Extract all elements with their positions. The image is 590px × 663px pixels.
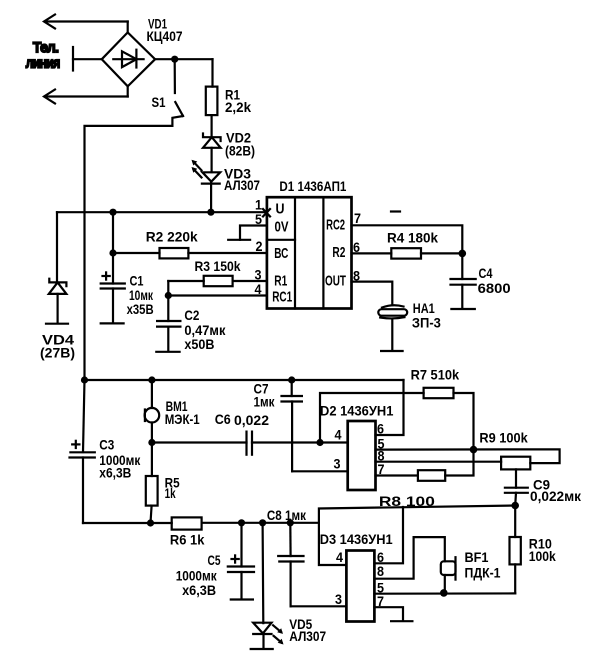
wire: D1 pin 7 to C4 junction	[352, 225, 463, 253]
node: junction BM1/C6/R5	[148, 439, 155, 446]
svg-text:С5: С5	[208, 552, 221, 568]
node: X mark at pin 1	[263, 209, 270, 217]
node: junction C8 / bottom rail	[287, 519, 294, 526]
node: junction VD5 / bottom rail	[259, 519, 266, 526]
wire: D1 pin 8 to HA1	[352, 282, 393, 304]
node: junction C5 / bottom rail	[238, 519, 245, 526]
ground	[46, 323, 68, 325]
buzzer HA1	[378, 300, 441, 351]
svg-text:RC2: RC2	[326, 217, 345, 234]
svg-text:(27В): (27В)	[40, 345, 75, 361]
svg-text:8: 8	[377, 563, 384, 579]
svg-text:R3 150k: R3 150k	[195, 258, 241, 274]
capacitor C1	[101, 212, 154, 323]
svg-text:7: 7	[354, 210, 361, 226]
svg-text:0,022: 0,022	[234, 412, 269, 428]
svg-text:АЛ307: АЛ307	[289, 628, 326, 644]
wire: VD2 to VD3	[211, 148, 213, 172]
node: junction R7/R8/pin5	[470, 446, 478, 454]
resistor R3	[168, 258, 267, 296]
resistor R5	[146, 443, 180, 524]
svg-text:ВС: ВС	[274, 245, 288, 262]
svg-text:2: 2	[256, 238, 263, 254]
ground: D3 pin 7	[374, 607, 412, 621]
microphone BM1	[145, 380, 200, 443]
svg-text:КЦ407: КЦ407	[147, 28, 183, 44]
ground	[251, 648, 273, 650]
svg-text:R7 510k: R7 510k	[411, 367, 460, 383]
svg-text:BF1: BF1	[465, 549, 489, 565]
svg-text:х50В: х50В	[184, 336, 214, 352]
resistor R1	[206, 87, 251, 116]
node: junction R4/C4/pin7	[459, 250, 467, 258]
capacitor C6	[152, 411, 320, 455]
svg-text:OUT: OUT	[325, 273, 346, 290]
svg-text:0,022мк: 0,022мк	[530, 488, 582, 504]
svg-text:С4: С4	[479, 265, 493, 281]
op-amp U1: IC D1 1436АП1	[255, 178, 362, 309]
wire: D1 pin 5 ground stub	[228, 226, 267, 240]
svg-text:S1: S1	[152, 94, 166, 110]
node: junction C9/R10/frame	[511, 502, 519, 510]
svg-text:4: 4	[336, 549, 343, 565]
node: line terminal bar	[73, 47, 102, 71]
svg-text:ПДК-1: ПДК-1	[465, 565, 501, 581]
svg-text:МЭК-1: МЭК-1	[165, 411, 200, 427]
wire: junction to D2 pin 4	[320, 441, 348, 443]
bridge rectifier VD1	[102, 16, 183, 87]
svg-text:3: 3	[334, 456, 341, 472]
zener diode VD4	[40, 212, 75, 360]
LED VD5	[251, 523, 327, 649]
capacitor C2	[156, 296, 226, 353]
resistor R10	[510, 506, 556, 594]
wire: D3 frame to R10 junction	[319, 506, 515, 566]
svg-text:D1 1436АП1: D1 1436АП1	[279, 178, 346, 194]
svg-text:6800: 6800	[478, 280, 511, 296]
wire: bridge output to R1	[155, 59, 212, 86]
wire: D3 pin 5 line	[374, 592, 515, 594]
wire: top line arrow	[44, 15, 128, 34]
svg-text:0V: 0V	[275, 219, 289, 236]
wire: D2 pin 5 line	[376, 449, 560, 463]
wire: bottom rail left	[83, 522, 172, 524]
capacitor C3	[70, 380, 142, 523]
op-amp U3: IC D3 1436УН1	[320, 531, 393, 622]
resistor R9	[376, 430, 531, 470]
resistor R8	[376, 450, 474, 509]
ground	[231, 598, 253, 600]
ground	[451, 308, 474, 310]
svg-text:D2 1436УН1: D2 1436УН1	[320, 403, 394, 419]
node: junction C1 branch	[109, 209, 116, 216]
svg-text:ЗП-3: ЗП-3	[412, 315, 441, 331]
node: junction left bus / mid rail	[81, 376, 88, 383]
op-amp U2: IC D2 1436УН1	[320, 403, 394, 491]
svg-text:(82В): (82В)	[225, 143, 255, 159]
svg-text:R1: R1	[274, 273, 287, 290]
capacitor C5	[176, 523, 254, 600]
svg-text:АЛ307: АЛ307	[224, 177, 260, 193]
svg-text:х6,3В: х6,3В	[182, 582, 216, 598]
svg-text:R2: R2	[332, 244, 345, 261]
svg-text:3: 3	[335, 591, 342, 607]
node: junction VD3/top rail	[207, 209, 214, 216]
wire: D3 pin 6 riser	[374, 507, 403, 563]
resistor R7	[320, 367, 474, 450]
node: junction BF1 / pin5 line	[440, 589, 448, 597]
svg-text:Тел.: Тел.	[33, 39, 59, 55]
noise dash	[391, 210, 400, 212]
svg-text:1k: 1k	[165, 485, 176, 501]
svg-text:R4 180k: R4 180k	[387, 230, 438, 246]
sounder BF1	[374, 537, 500, 592]
svg-text:100k: 100k	[529, 548, 556, 564]
resistor R6	[170, 517, 319, 547]
LED VD3	[192, 160, 261, 193]
resistor R4	[352, 230, 463, 259]
svg-text:5: 5	[255, 211, 262, 227]
resistor R2	[109, 229, 267, 259]
svg-text:С6: С6	[215, 411, 231, 427]
svg-text:С2: С2	[184, 307, 199, 323]
zener diode VD2	[203, 130, 255, 159]
node: junction C7 / mid rail	[288, 376, 295, 383]
svg-text:4: 4	[255, 281, 262, 297]
svg-text:R2 220k: R2 220k	[146, 229, 198, 245]
svg-text:х6,3В: х6,3В	[99, 465, 131, 481]
node: junction BM1 / mid rail	[148, 376, 155, 383]
wire: D1 pin 4 line	[165, 292, 267, 299]
node: junction C6 / D2 pin 4 / R7	[316, 439, 323, 446]
capacitor C4	[451, 253, 511, 309]
switch S1	[152, 62, 184, 126]
wire: mid supply rail	[85, 380, 404, 435]
svg-text:R6 1k: R6 1k	[170, 532, 205, 548]
svg-text:С8 1мк: С8 1мк	[267, 507, 307, 523]
svg-text:линия: линия	[26, 55, 60, 71]
svg-text:4: 4	[335, 427, 342, 443]
node: junction R5 / bottom rail	[147, 519, 154, 526]
svg-text:х35В: х35В	[127, 301, 154, 317]
node: junction bridge/S1	[171, 56, 178, 63]
svg-text:1мк: 1мк	[254, 394, 276, 410]
ground	[228, 239, 250, 241]
svg-text:6: 6	[377, 421, 384, 437]
svg-text:С3: С3	[99, 437, 114, 453]
svg-text:U: U	[276, 201, 285, 218]
ground	[101, 322, 124, 324]
wire: VD3 to top rail	[210, 183, 212, 212]
capacitor C9	[505, 469, 582, 505]
svg-text:RC1: RC1	[272, 289, 292, 306]
ground	[156, 351, 179, 353]
wire: S1 to left bus	[85, 126, 173, 380]
svg-text:2,2k: 2,2k	[225, 99, 251, 115]
wire: R1 to VD2	[211, 115, 213, 137]
svg-text:D3 1436УН1: D3 1436УН1	[320, 531, 393, 547]
wire: top rail to D1 pin 1	[57, 211, 267, 213]
capacitor C8	[267, 507, 347, 606]
capacitor C7	[254, 380, 348, 471]
svg-text:R9 100k: R9 100k	[479, 430, 528, 446]
ground	[381, 350, 403, 352]
wire: bottom line arrow	[44, 86, 128, 104]
node: telephone line label	[26, 39, 60, 71]
